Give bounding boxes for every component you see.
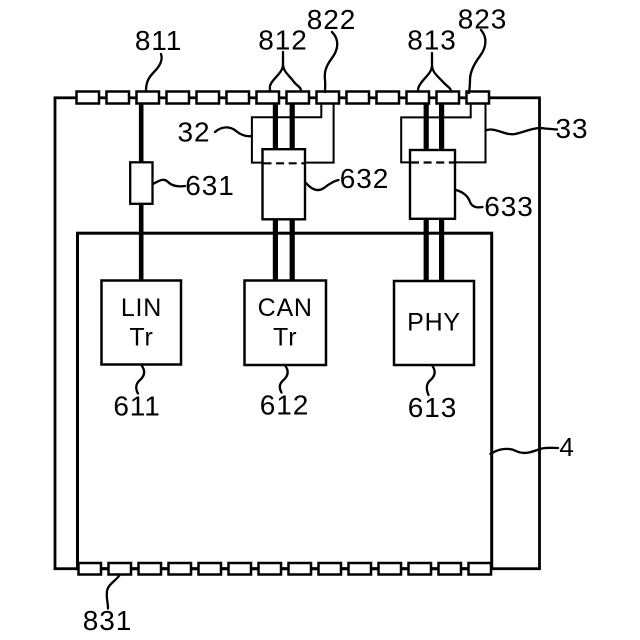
svg-text:LIN: LIN	[121, 294, 162, 322]
svg-text:Tr: Tr	[129, 324, 153, 352]
svg-text:33: 33	[556, 113, 589, 144]
svg-text:822: 822	[307, 4, 356, 35]
svg-text:PHY: PHY	[407, 308, 461, 336]
svg-text:631: 631	[185, 170, 234, 201]
svg-text:612: 612	[260, 390, 309, 421]
svg-text:613: 613	[408, 392, 457, 423]
svg-text:811: 811	[135, 25, 182, 56]
svg-text:CAN: CAN	[258, 294, 313, 322]
svg-text:823: 823	[458, 4, 507, 35]
svg-text:32: 32	[178, 117, 211, 148]
svg-text:813: 813	[407, 25, 456, 56]
svg-text:633: 633	[484, 191, 533, 222]
svg-text:831: 831	[83, 605, 132, 636]
svg-text:Tr: Tr	[273, 324, 297, 352]
svg-text:4: 4	[559, 432, 574, 462]
svg-text:632: 632	[340, 163, 389, 194]
svg-text:611: 611	[113, 391, 160, 422]
